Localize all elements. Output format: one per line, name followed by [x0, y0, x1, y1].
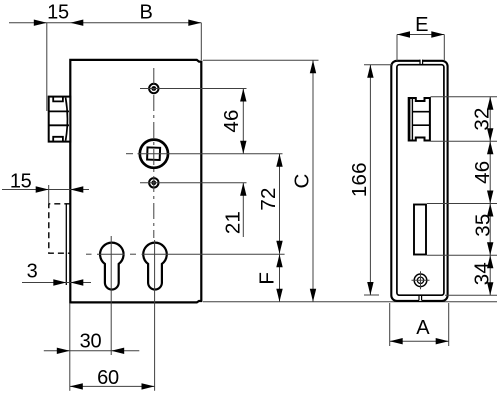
follower left face lines [409, 97, 411, 142]
latch internal line upper [49, 110, 69, 112]
side screw crosshair [412, 279, 430, 281]
dimension 3: line [22, 282, 91, 284]
arrow down at 301.8 (F) [276, 289, 282, 302]
svg-text:E: E [415, 14, 428, 36]
dimension E line [397, 34, 444, 36]
svg-text:32: 32 [470, 107, 493, 130]
arrow down at 295.2 (34) [487, 282, 493, 295]
svg-text:35: 35 [471, 213, 494, 236]
svg-text:166: 166 [348, 162, 371, 197]
bottom long extension line [203, 301, 497, 303]
dimension C line [312, 60, 314, 302]
arrows at 141.2 [487, 128, 493, 141]
arrow up at 254.2 (F) [276, 254, 282, 267]
svg-text:46: 46 [471, 161, 494, 184]
latch bolt body [49, 97, 71, 142]
latch bottom notch [53, 137, 63, 142]
spindle square hole [147, 147, 160, 160]
latch bevel curve [66, 98, 68, 141]
arrow left at 111.2 (30) [111, 348, 124, 354]
latch internal line lower [49, 124, 69, 126]
cylinder hole right [143, 243, 166, 290]
svg-text:46: 46 [220, 109, 243, 132]
arrow right tip at 154.5 (60) [142, 383, 155, 389]
arrow down at 301.8 (C) [310, 289, 316, 302]
15 left extension line [48, 185, 50, 204]
arrows at 255.2 [487, 242, 493, 255]
follower hub side view [409, 98, 430, 141]
dimension 72 line [279, 154, 281, 254]
front view lock case outline [70, 60, 201, 303]
arrows at 203.5 [487, 191, 493, 204]
arrow left at 70.3 [70, 279, 83, 285]
svg-text:15: 15 [10, 170, 32, 192]
3mm plate line [65, 205, 67, 286]
bottom joint notch [419, 298, 422, 301]
spindle follower circle [140, 140, 168, 168]
dimension F line [279, 254, 281, 302]
A extension lines [389, 303, 391, 346]
arrow right at 69.8 (30) [57, 348, 70, 354]
svg-text:C: C [291, 173, 314, 188]
dimension 15 left: line [2, 189, 89, 191]
C top extension line [203, 59, 319, 61]
right column extension lines [431, 96, 498, 98]
arrow left at 70.3 [70, 20, 83, 26]
top screw centerline / 46 extension [140, 88, 247, 90]
arrow down at 295 (166) [367, 282, 373, 295]
B right extension line [200, 23, 202, 60]
screw hole top [149, 84, 158, 93]
cylinder hole left [100, 243, 124, 290]
latch top notch [53, 97, 63, 102]
arrow left at 70.3 [70, 186, 83, 192]
arrow right tip at 448.7 (A) [436, 338, 449, 344]
arrow up at 182.8 (21) [240, 183, 246, 196]
side screw boss [414, 274, 427, 287]
svg-text:60: 60 [97, 367, 119, 389]
svg-text:15: 15 [47, 2, 69, 24]
svg-text:A: A [416, 317, 430, 339]
15 top extension line [46, 23, 48, 111]
166 extension lines [364, 64, 392, 66]
arrow left tip at 397 (E) [397, 31, 410, 37]
arrow up at 96.8 (32) [487, 97, 493, 110]
side view outer case [391, 61, 447, 301]
svg-text:F: F [255, 272, 278, 285]
cylinder left centerline / 30 extension [110, 236, 112, 355]
dimension 46/21 line [242, 89, 244, 154]
follower horizontal lines [412, 111, 430, 113]
dimension A line [390, 340, 449, 342]
screw hole bottom [149, 178, 158, 187]
bottom screw centerline / 21 extension [140, 182, 247, 184]
arrow right at 46.8 [34, 20, 47, 26]
arrow up at 153.7 [276, 154, 282, 167]
arrow right tip at 444.3 (E) [431, 31, 444, 37]
vertical centerline (spindle axis) [153, 68, 155, 238]
spindle horizontal centerline [126, 153, 133, 155]
svg-text:B: B [139, 2, 152, 24]
dimension 15 top: line [9, 22, 201, 24]
dimension 60 line [70, 385, 155, 387]
case-left bottom extension line [69, 303, 71, 391]
svg-text:30: 30 [80, 330, 102, 352]
hidden dashed box (strike area) [49, 204, 71, 253]
arrow up at 64.8 (166) [367, 65, 373, 78]
dimension 166 line [369, 65, 371, 295]
arrow right at 66.3 [53, 279, 66, 285]
arrow left tip at 389.7 (A) [390, 338, 403, 344]
arrow down at 253.8 [276, 241, 282, 254]
E extension lines [396, 35, 398, 62]
cylinder horizontal centerline / F extension [86, 253, 92, 255]
top joint notch [420, 59, 423, 62]
dimension 30 line [44, 350, 140, 352]
bolt slot side view [414, 205, 426, 255]
arrow left tip at 69.8 (60) [70, 383, 83, 389]
arrow up at 60.2 (C) [310, 60, 316, 73]
arrow right at 201.3 [188, 20, 201, 26]
arrow down at 153.7 [240, 141, 246, 154]
cylinder right centerline / 60 extension [154, 240, 156, 391]
svg-text:34: 34 [471, 262, 494, 285]
svg-text:3: 3 [27, 260, 38, 282]
side view inner wall [397, 65, 444, 296]
arrow up at 88.5 [240, 89, 246, 102]
svg-text:21: 21 [222, 211, 245, 234]
arrow right at 48.7 [36, 186, 49, 192]
svg-text:72: 72 [257, 187, 280, 210]
right column dimension line [489, 97, 491, 295]
